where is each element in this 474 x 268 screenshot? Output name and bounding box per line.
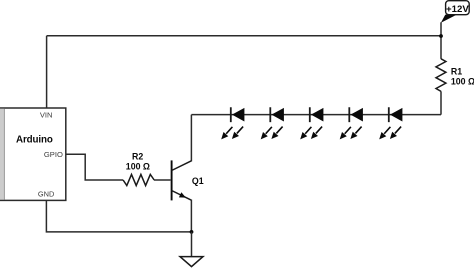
svg-text:+12V: +12V [446,4,469,15]
svg-text:Arduino: Arduino [16,135,53,146]
Arduino box [0,108,66,200]
resistor R2 [123,174,154,185]
node junction top [439,34,443,38]
LED D5 [379,107,402,139]
wire R2 to base [154,179,171,181]
wire VIN up [46,36,48,108]
svg-text:100 Ω: 100 Ω [451,77,474,87]
wire GND down from Arduino [46,200,191,232]
svg-text:Q1: Q1 [192,176,204,186]
wire top horizontal [47,35,441,37]
+12V flag box [446,1,470,15]
wire LED row horizontal [191,114,441,116]
wire R1 to LED row [440,91,442,114]
transistor Q1 emitter [172,191,192,201]
+12V flag pointer [441,15,457,23]
wire +12V drop [440,22,442,59]
svg-text:VIN: VIN [40,111,53,120]
svg-text:GPIO: GPIO [44,150,63,159]
transistor Q1 base bar [171,160,173,200]
LED D1 [221,107,244,139]
wire to ground symbol [191,232,193,257]
resistor R1 [436,59,446,92]
svg-text:GND: GND [38,190,54,199]
wire emitter down [190,200,192,232]
wire GPIO to R2 [66,154,123,180]
LED D2 [261,107,284,139]
wire LED row to collector [190,115,192,162]
LED D3 [300,107,323,139]
node junction emitter/gnd [190,230,194,234]
LED D4 [340,107,363,139]
svg-text:R2: R2 [132,152,143,162]
ground [180,257,203,267]
svg-text:R1: R1 [451,67,462,77]
Arduino box left shade [0,109,4,200]
svg-text:100 Ω: 100 Ω [126,161,150,171]
transistor Q1 collector [172,161,192,171]
transistor Q1 emitter arrow [179,192,186,197]
